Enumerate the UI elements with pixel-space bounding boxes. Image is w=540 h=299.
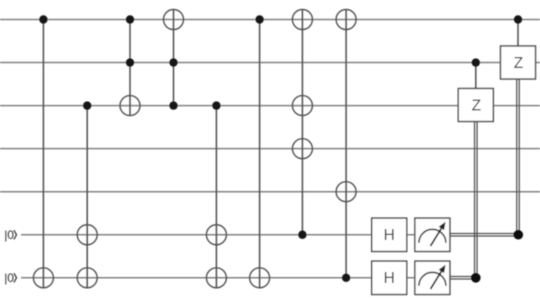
svg-text:H: H xyxy=(384,227,395,244)
svg-text:|0: |0 xyxy=(4,228,14,242)
svg-text:|0: |0 xyxy=(4,271,14,285)
svg-text:H: H xyxy=(384,270,395,287)
svg-text:Z: Z xyxy=(514,55,523,72)
svg-text:Z: Z xyxy=(472,98,481,115)
